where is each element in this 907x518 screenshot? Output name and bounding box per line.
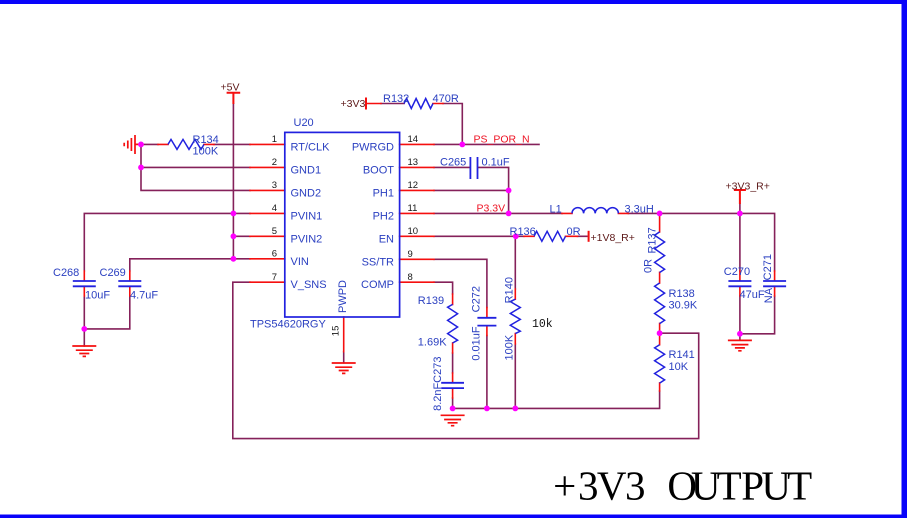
svg-text:470R: 470R	[433, 93, 459, 105]
svg-text:PS_POR_N: PS_POR_N	[474, 133, 530, 145]
wire pin12 PH1	[434, 189, 509, 191]
svg-text:R136: R136	[510, 226, 536, 238]
R137-R138 stub	[659, 272, 661, 283]
C269 stubs	[129, 271, 131, 296]
wire +5V rail vertical to VIN	[232, 104, 234, 259]
wire gnd node to R134	[141, 143, 250, 145]
svg-text:C269: C269	[100, 267, 126, 279]
svg-text:+5V: +5V	[221, 82, 240, 94]
svg-text:1.69K: 1.69K	[418, 337, 447, 349]
capacitor C268 plates	[73, 281, 96, 286]
power bar +1V8_R+	[588, 231, 590, 242]
svg-text:C265: C265	[440, 157, 466, 169]
svg-text:PVIN1: PVIN1	[291, 210, 323, 222]
wire gnd down + pin3 GND2	[141, 167, 250, 190]
svg-text:BOOT: BOOT	[363, 164, 394, 176]
svg-text:7: 7	[272, 272, 277, 283]
wire pin15 to gnd	[343, 352, 345, 363]
capacitor C265 plates	[470, 157, 477, 179]
svg-text:RT/CLK: RT/CLK	[291, 141, 331, 153]
wire C270 bottom to gnd	[739, 296, 741, 340]
wire pin4 PVIN1 to C268	[84, 213, 250, 271]
wire pin13 BOOT to C265	[434, 166, 470, 168]
C272 stubs	[486, 308, 488, 336]
svg-text:4.7uF: 4.7uF	[130, 289, 158, 301]
svg-text:+1V8_R+: +1V8_R+	[591, 232, 635, 244]
svg-text:PH2: PH2	[373, 210, 394, 222]
resistor R141 vertical	[655, 345, 665, 383]
wire C265 to PH node	[478, 167, 509, 213]
svg-text:PWPD: PWPD	[337, 280, 349, 313]
resistor R134	[168, 139, 204, 149]
svg-text:14: 14	[408, 134, 419, 145]
svg-text:VIN: VIN	[291, 256, 309, 268]
svg-text:COMP: COMP	[361, 279, 394, 291]
wire C268 bottom to gnd	[83, 296, 85, 346]
ground below C270	[728, 340, 752, 350]
ground below pin 15	[332, 363, 356, 373]
ground below C268	[72, 346, 96, 356]
op-amp U20 body box	[285, 132, 400, 317]
junction +5V/pin4	[231, 211, 237, 217]
power bar +3V3_R+	[734, 190, 746, 204]
svg-text:PH1: PH1	[373, 187, 394, 199]
capacitor C269 plates	[118, 281, 141, 286]
junction PH1/PH2	[506, 211, 512, 217]
wire +3V3 to R132	[381, 104, 462, 145]
svg-text:6: 6	[272, 249, 277, 260]
junction C268/C269 gnd	[81, 326, 87, 332]
svg-text:TPS54620RGY: TPS54620RGY	[250, 319, 326, 331]
svg-text:C268: C268	[53, 267, 79, 279]
svg-text:0.01uF: 0.01uF	[471, 326, 483, 361]
L1 stubs	[562, 212, 628, 214]
R140 stubs	[514, 289, 516, 344]
svg-text:0R: 0R	[643, 259, 655, 273]
svg-text:10uF: 10uF	[85, 289, 110, 301]
R132 stubs	[366, 103, 443, 105]
svg-text:PWRGD: PWRGD	[352, 141, 394, 153]
svg-text:8: 8	[408, 272, 413, 283]
svg-text:100K: 100K	[503, 334, 515, 360]
resistor R136	[534, 231, 566, 241]
svg-text:0R: 0R	[567, 226, 581, 238]
svg-text:EN: EN	[379, 233, 394, 245]
capacitor C272 plates	[477, 318, 496, 326]
svg-text:10: 10	[408, 226, 419, 237]
capacitor C270 plates	[728, 281, 751, 286]
svg-text:GND1: GND1	[291, 164, 322, 176]
wire ground rail bottom	[453, 391, 660, 408]
wire pin8 COMP to R139	[434, 282, 453, 373]
svg-text:47uF: 47uF	[740, 289, 765, 301]
svg-text:P3.3V: P3.3V	[477, 202, 506, 214]
svg-text:5: 5	[272, 226, 277, 237]
svg-text:8.2nF: 8.2nF	[432, 382, 444, 410]
resistor R137 vertical	[655, 232, 665, 273]
svg-text:12: 12	[408, 180, 419, 191]
border top bar	[0, 0, 907, 4]
junction R140/gnd rail	[512, 406, 518, 412]
junction R132/PWRGD	[459, 142, 465, 148]
wire +3V3_R+ node to C270	[739, 204, 741, 271]
capacitor C271 plates	[763, 281, 786, 286]
svg-text:15: 15	[331, 326, 342, 337]
resistor R138 vertical	[655, 283, 665, 324]
C270 stubs	[739, 271, 741, 296]
svg-text:100K: 100K	[193, 146, 219, 158]
junction gnd/R134	[138, 142, 144, 148]
svg-text:R134: R134	[193, 134, 219, 146]
inductor L1	[572, 208, 618, 214]
pin stubs right pins 14-8	[400, 144, 434, 282]
wire EN node down to R140	[514, 236, 516, 408]
svg-text:R132: R132	[383, 93, 409, 105]
ground at R134 (left-pointing)	[124, 135, 141, 154]
resistor R139 vertical	[448, 304, 458, 343]
svg-text:1: 1	[272, 134, 277, 145]
wire C271 bottom	[740, 296, 775, 334]
svg-text:30.9K: 30.9K	[669, 299, 698, 311]
svg-text:3: 3	[272, 180, 277, 191]
svg-text:PVIN2: PVIN2	[291, 233, 323, 245]
R134 stubs	[158, 143, 214, 145]
R141 top stub	[659, 333, 661, 345]
C273 stubs	[452, 373, 454, 398]
junction C270/C271 gnd	[737, 331, 743, 337]
svg-text:V_SNS: V_SNS	[291, 279, 327, 291]
svg-text:GND2: GND2	[291, 187, 322, 199]
svg-text:C272: C272	[471, 286, 483, 312]
C271 stubs	[774, 271, 776, 296]
svg-text:+3V3_R+: +3V3_R+	[726, 181, 770, 193]
svg-text:R138: R138	[669, 288, 695, 300]
junction C272/gnd rail	[484, 406, 490, 412]
resistor R140 vertical	[510, 299, 520, 333]
wire V_SNS feedback loop	[233, 282, 699, 438]
svg-text:R139: R139	[418, 295, 444, 307]
svg-text:3.3uH: 3.3uH	[625, 204, 654, 216]
junction R138/R141 feedback	[657, 330, 663, 336]
svg-text:R141: R141	[669, 349, 695, 361]
C268 stubs	[83, 271, 85, 296]
svg-text:L1: L1	[550, 204, 562, 216]
R138 bottom stub	[659, 323, 661, 333]
wire pin9 SS/TR to C272	[434, 259, 487, 408]
svg-text:4: 4	[272, 203, 277, 214]
power bar +5V	[227, 93, 241, 104]
power bar +3V3	[365, 98, 367, 110]
junction +5V/pin6	[231, 256, 237, 262]
wire pin5 PVIN2	[233, 235, 250, 237]
svg-text:C273: C273	[432, 357, 444, 383]
svg-text:11: 11	[408, 203, 418, 214]
junction gnd/pin2	[138, 165, 144, 171]
wire pin10 EN to R136	[434, 235, 587, 237]
pin stubs left pins 1-7	[250, 144, 285, 282]
ground below C273	[441, 415, 465, 425]
junction output/C270	[737, 211, 743, 217]
capacitor C273 plates	[441, 383, 464, 388]
wire pin11 PH2 to L1	[434, 212, 562, 214]
wire L1 to output node	[628, 213, 774, 271]
R137 top stub	[659, 213, 661, 232]
junction C273/gnd rail	[450, 406, 456, 412]
svg-text:13: 13	[408, 157, 419, 168]
junction C265/PH1	[506, 188, 512, 194]
junction EN/R136/R140	[513, 233, 519, 239]
pin 15 stub	[343, 317, 345, 352]
svg-text:R140: R140	[503, 277, 515, 303]
R136 stubs	[524, 235, 578, 237]
svg-text:10k: 10k	[532, 318, 553, 331]
R139 stubs	[452, 294, 454, 353]
wire pin14 PWRGD to PS_POR_N	[434, 143, 539, 145]
svg-text:U20: U20	[294, 117, 314, 129]
border bottom bar	[0, 515, 907, 518]
svg-text:9: 9	[408, 249, 413, 260]
border right bar	[902, 0, 907, 518]
svg-text:0.1uF: 0.1uF	[482, 157, 510, 169]
svg-text:R137: R137	[646, 227, 658, 253]
svg-text:+3V3: +3V3	[341, 98, 366, 110]
wire gnd down + pin2 GND1	[141, 144, 250, 167]
wire C269 bottom join	[84, 296, 130, 329]
svg-text:SS/TR: SS/TR	[362, 256, 394, 268]
svg-text:10K: 10K	[669, 361, 689, 373]
svg-text:2: 2	[272, 157, 277, 168]
junction output/L1	[657, 211, 663, 217]
svg-text:+3V3OUTPUT: +3V3OUTPUT	[553, 463, 812, 509]
resistor R132	[404, 99, 433, 109]
R141 bottom stub	[659, 383, 661, 391]
wire pin6 VIN to C269	[130, 259, 250, 271]
junction +5V/pin5	[231, 233, 237, 239]
svg-text:C270: C270	[724, 266, 750, 278]
svg-text:C271: C271	[762, 254, 774, 280]
svg-text:NA: NA	[763, 287, 775, 303]
wire C273 bottom	[452, 398, 454, 408]
